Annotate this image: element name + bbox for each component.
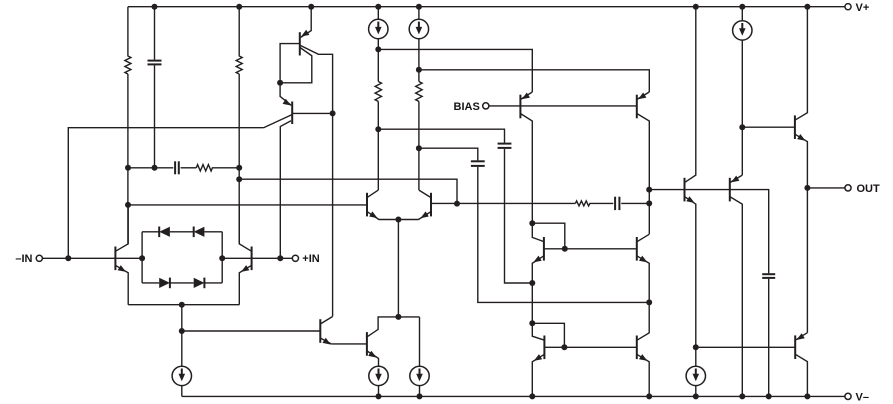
wire y=129.2 to capacitor C2 xyxy=(378,129,504,143)
node R3 / C2 tap xyxy=(375,126,381,132)
current source I5 xyxy=(410,317,429,397)
node +IN junction xyxy=(277,255,283,261)
capacitor C6 xyxy=(762,273,775,275)
resistor R1 xyxy=(125,7,131,74)
svg-text:OUT: OUT xyxy=(857,183,881,195)
diode D4 xyxy=(194,278,205,288)
wire Q17 base xyxy=(742,126,795,128)
node second stage tail xyxy=(395,217,401,223)
wire mirror1 base xyxy=(544,248,637,250)
resistor R4 xyxy=(416,82,422,102)
node RC net left xyxy=(125,165,131,171)
node -IN junction xyxy=(65,255,71,261)
wire C3 bottom down and right to mirror node xyxy=(478,167,649,303)
wire BIAS base xyxy=(489,105,637,107)
wire y=148.2 to capacitor C3 xyxy=(419,148,478,160)
resistor R3 xyxy=(375,82,381,102)
node V+ rail / Q15 collector xyxy=(693,4,699,10)
node RC net right xyxy=(236,165,242,171)
transistor Q5 second stage NPN left xyxy=(366,193,368,217)
wire x=378.3 to Q5 collector xyxy=(377,101,379,190)
wire feedback RC net y=167.8 xyxy=(128,167,173,169)
svg-text:BIAS: BIAS xyxy=(454,101,480,113)
node I2 / Q8 emitter tap xyxy=(416,67,422,73)
current source I3 (left tail) xyxy=(172,366,191,396)
wire y=69.8 to Q8 emitter xyxy=(419,70,649,92)
wire y=331 to Q13 base xyxy=(182,330,320,332)
wire drive y=189.6 xyxy=(649,190,769,274)
node V- rail / C6 xyxy=(766,393,772,399)
terminal V- xyxy=(845,393,851,399)
terminal -IN xyxy=(36,255,42,261)
transistor Q17 output NPN xyxy=(794,115,796,139)
wire y=179.2 from +IN collector line to 2nd stage base xyxy=(239,179,457,203)
node I1 / Q7 emitter tap xyxy=(375,46,381,52)
node Q17 base junction xyxy=(739,124,745,130)
node dual collector 2 junction xyxy=(330,110,336,116)
terminal +IN xyxy=(292,255,298,261)
current source I7 (bottom right) xyxy=(686,366,705,396)
node V- rail / I5 xyxy=(417,393,423,399)
svg-text:V–: V– xyxy=(856,391,869,403)
transistor Q14 NPN xyxy=(366,332,368,356)
wire -IN feedback y=127.7 xyxy=(68,128,263,259)
node bridge right xyxy=(219,255,225,261)
node V+ rail / R2 xyxy=(236,4,242,10)
wire R2 bottom to +IN collector xyxy=(238,74,240,244)
capacitor C1 xyxy=(154,7,156,60)
node V- rail / Q12 emitter xyxy=(646,393,652,399)
current source I2 xyxy=(409,7,428,82)
terminal V+ xyxy=(845,4,851,10)
node Q18 base junction xyxy=(693,344,699,350)
current source I6 (top right) xyxy=(733,7,752,175)
resistor R6 xyxy=(575,201,613,206)
current source I1 (tail upper-left) xyxy=(369,7,388,82)
wire -IN lead xyxy=(42,257,142,259)
diode bridge outline xyxy=(142,232,222,283)
transistor Q2 dual-collector PNP (lower) xyxy=(280,83,291,106)
node mirror right column xyxy=(646,299,652,305)
node y=331 junction xyxy=(179,328,185,334)
wire mirror1 diode loop xyxy=(532,223,565,249)
wire Q13 emitter to Q14 base xyxy=(331,343,367,345)
wire OUT lead xyxy=(807,187,845,189)
wire +IN lead xyxy=(222,257,292,259)
wire input tail y=304.7 xyxy=(128,304,239,306)
node R4 / C3 tap xyxy=(416,145,422,151)
node mirror2 base junction xyxy=(561,344,567,350)
node tail junction xyxy=(179,302,185,308)
node V- rail / Q18 collector xyxy=(804,393,810,399)
wire x=398.4 tail link xyxy=(397,220,399,317)
capacitor C2 xyxy=(498,143,512,145)
transistor Q7 BIAS PNP left xyxy=(519,95,521,119)
node RC tap xyxy=(646,200,652,206)
node V+ rail / I1 xyxy=(375,4,381,10)
node V+ rail / Q1 emitter xyxy=(308,4,314,10)
wire top rail V+ xyxy=(128,6,845,8)
node mirror2 top xyxy=(529,320,535,326)
resistor R5 xyxy=(196,165,239,171)
wire Q18 base xyxy=(696,346,795,348)
wire R1 bottom to -IN collector xyxy=(127,74,129,244)
transistor Q16 driver PNP xyxy=(729,178,731,202)
wire mirror2 base xyxy=(544,346,636,348)
svg-text:+IN: +IN xyxy=(302,253,319,265)
transistor Q11 mirror2 diode NPN xyxy=(543,336,545,360)
diode D2 xyxy=(194,227,205,237)
wire x=418.9 to Q6 collector xyxy=(418,101,420,190)
node V- rail / I7 xyxy=(693,393,699,399)
transistor Q13 NPN xyxy=(319,319,321,343)
capacitor C5 xyxy=(614,197,616,210)
node y179 tap xyxy=(236,176,242,182)
wire bottom rail V- xyxy=(182,395,845,397)
transistor Q10 mirror1 NPN right xyxy=(636,237,638,261)
node V+ rail / I2 xyxy=(416,4,422,10)
node V+ rail / C1 xyxy=(152,4,158,10)
transistor Q12 mirror2 NPN right xyxy=(636,336,638,360)
svg-text:–IN: –IN xyxy=(15,253,32,265)
node mirror1 top xyxy=(529,220,535,226)
wire x=181.8 down xyxy=(181,305,183,367)
node V+ rail / Q17 collector xyxy=(804,4,810,10)
node OUT junction xyxy=(804,185,810,191)
node y=283 junction xyxy=(529,280,535,286)
node mirror1 base junction xyxy=(562,246,568,252)
terminal OUT xyxy=(845,185,851,191)
terminal BIAS xyxy=(483,103,489,109)
node second stage tail to Q14 xyxy=(395,314,401,320)
transistor Q8 BIAS PNP right xyxy=(636,95,638,119)
transistor Q18 output PNP xyxy=(794,335,796,359)
node V+ rail / I6 xyxy=(739,4,745,10)
wire base drive y=204.4 right segment with R6/C5 xyxy=(431,202,575,204)
diode D1 xyxy=(159,227,170,237)
wire x=332.6 down to Q13 collector xyxy=(332,113,334,316)
node V- rail / Q11 emitter xyxy=(529,393,535,399)
wire mirror2 diode loop xyxy=(532,323,564,347)
transistor Q15 driver NPN xyxy=(684,178,686,202)
wire base drive y=204.9 left segment xyxy=(128,204,367,206)
wire y=49.4 to Q7 emitter xyxy=(378,49,532,92)
node RC net / C1 xyxy=(152,165,158,171)
svg-text:V+: V+ xyxy=(856,2,870,14)
transistor Q6 second stage NPN right xyxy=(430,193,432,217)
node base drive left xyxy=(125,202,131,208)
node A: diode point of Q1/Q2 xyxy=(277,80,283,86)
node V- rail / Q16 collector xyxy=(739,393,745,399)
node drive wire tap xyxy=(646,187,652,193)
current source I4 xyxy=(369,366,388,396)
resistor R2 xyxy=(236,7,242,74)
node y=204.5 junction xyxy=(454,201,460,207)
transistor Q1 dual-collector PNP (top) xyxy=(301,7,312,38)
capacitor C4 xyxy=(174,161,176,174)
transistor Q9 mirror1 diode NPN xyxy=(543,237,545,261)
capacitor C3 xyxy=(471,160,485,162)
transistor Q3 -IN input NPN xyxy=(114,247,116,271)
transistor Q4 +IN input NPN xyxy=(251,247,253,271)
diode D3 xyxy=(159,278,170,288)
node V- rail / I4 xyxy=(376,393,382,399)
node bridge left xyxy=(139,255,145,261)
